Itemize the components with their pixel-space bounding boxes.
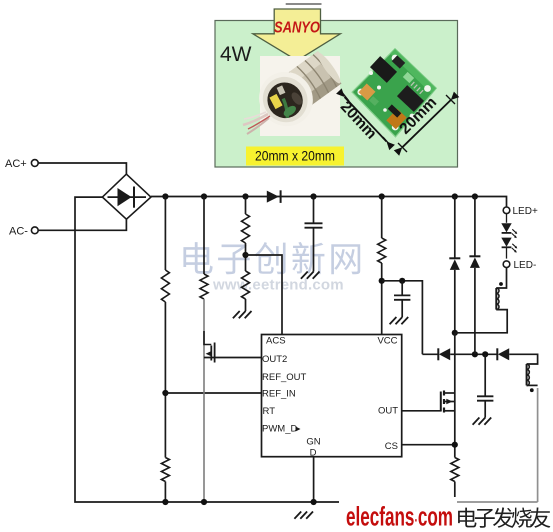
svg-text:CS: CS xyxy=(385,441,398,452)
svg-text:www.eetrend.com: www.eetrend.com xyxy=(212,277,344,294)
svg-text:AC-: AC- xyxy=(9,226,28,238)
svg-text:RT: RT xyxy=(263,406,276,417)
svg-text:REF_OUT: REF_OUT xyxy=(262,372,307,383)
svg-text:REF_IN: REF_IN xyxy=(262,389,296,400)
svg-text:SANYO: SANYO xyxy=(274,20,320,37)
svg-text:elecfans·com: elecfans·com xyxy=(346,502,453,532)
svg-text:OUT: OUT xyxy=(378,406,398,417)
svg-text:AC+: AC+ xyxy=(5,158,27,170)
svg-text:OUT2: OUT2 xyxy=(262,354,287,365)
svg-text:VCC: VCC xyxy=(377,336,397,347)
svg-text:20mm x 20mm: 20mm x 20mm xyxy=(255,148,335,164)
svg-text:LED-: LED- xyxy=(514,260,537,271)
svg-text:LED+: LED+ xyxy=(513,206,538,217)
svg-text:ACS: ACS xyxy=(266,336,286,347)
svg-text:GN: GN xyxy=(306,437,320,448)
svg-text:4W: 4W xyxy=(220,43,252,66)
svg-text:PWM_D: PWM_D xyxy=(262,424,298,435)
